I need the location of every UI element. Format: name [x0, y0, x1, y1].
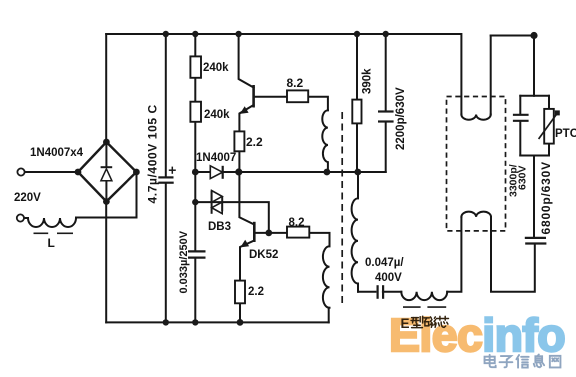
svg-text:L: L	[48, 236, 55, 250]
svg-text:240k: 240k	[203, 62, 229, 74]
svg-text:8.2: 8.2	[287, 76, 304, 90]
svg-text:E: E	[401, 316, 410, 331]
svg-text:2.2: 2.2	[248, 286, 264, 298]
svg-text:390k: 390k	[362, 68, 374, 94]
svg-text:400V: 400V	[375, 272, 402, 284]
svg-text:1N4007: 1N4007	[196, 152, 236, 164]
svg-text:6800p/630V: 6800p/630V	[539, 161, 553, 234]
svg-text:DK52: DK52	[249, 249, 278, 261]
svg-text:220V: 220V	[14, 192, 41, 204]
svg-text:240k: 240k	[204, 109, 230, 121]
svg-text:PTC: PTC	[555, 128, 576, 140]
svg-text:2.2: 2.2	[246, 135, 263, 149]
svg-text:0.047µ/: 0.047µ/	[365, 257, 404, 269]
svg-text:Elecinfo: Elecinfo	[389, 309, 565, 361]
svg-text:2200p/630V: 2200p/630V	[395, 87, 407, 150]
svg-text:8.2: 8.2	[289, 217, 305, 229]
svg-text:4.7µ/400V 105 C: 4.7µ/400V 105 C	[146, 104, 160, 203]
svg-text:0.033µ/250V: 0.033µ/250V	[178, 230, 190, 293]
svg-text:1N4007x4: 1N4007x4	[30, 147, 84, 159]
svg-text:DB3: DB3	[208, 221, 231, 233]
svg-text:630V: 630V	[517, 165, 529, 190]
